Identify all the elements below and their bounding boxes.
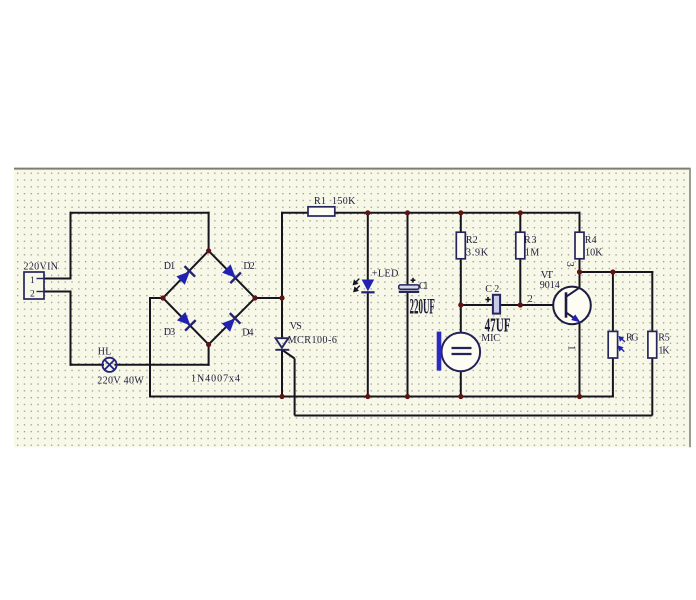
svg-text:47UF: 47UF [485, 316, 511, 337]
wire collector rail [580, 271, 653, 273]
svg-text:MCR100-6: MCR100-6 [288, 335, 337, 346]
junction top rail R2 [458, 210, 463, 215]
wire R3 top drop [519, 213, 521, 232]
svg-text:1M: 1M [525, 248, 540, 259]
thyristor VS MCR100-6 [275, 338, 652, 415]
resistor RG photoresistor [608, 331, 625, 358]
sheet background [14, 168, 691, 447]
wire bridge edge top-left [163, 251, 209, 298]
junction bridge right [252, 295, 257, 300]
LED light arrows [354, 279, 360, 292]
svg-text:VT: VT [541, 269, 554, 281]
svg-text:HL: HL [98, 346, 112, 357]
junction top rail C1 [405, 210, 410, 215]
svg-text:D2: D2 [243, 261, 254, 272]
wire top-left rail [71, 212, 209, 214]
svg-text:D3: D3 [164, 327, 175, 338]
wire R1 left lead [282, 212, 308, 214]
lamp HL [102, 358, 116, 372]
junction collector RG [610, 269, 615, 274]
RG light arrows [619, 337, 625, 352]
wire RG bottom [612, 358, 614, 397]
svg-text:2: 2 [30, 290, 35, 300]
wire bridge edge bottom-right [209, 298, 255, 345]
svg-text:R3: R3 [524, 235, 537, 246]
pin 1 stub inside [37, 278, 45, 280]
wire SCR anode [281, 298, 283, 338]
wire LED bottom drop [367, 293, 369, 397]
wire R5 top drop [651, 272, 653, 331]
wire lamp left [71, 364, 104, 366]
microphone MIC [437, 332, 480, 372]
wire bridge edge top-right [209, 251, 255, 298]
svg-text:+LED: +LED [372, 269, 399, 280]
sheet right border [689, 168, 691, 447]
capacitor C2 [485, 295, 500, 314]
junction bottom SCR [279, 394, 284, 399]
wire drop to bridge top [208, 213, 210, 251]
gate lead diagonal [283, 351, 294, 359]
junction main node [279, 295, 284, 300]
svg-text:10K: 10K [585, 248, 603, 259]
svg-text:VS: VS [290, 321, 302, 332]
diode D1 [176, 266, 195, 285]
wire pin1 riser [70, 213, 72, 279]
wire left vertex drop [149, 298, 151, 397]
LED [354, 279, 375, 293]
diode D4 [222, 313, 241, 332]
wire R4 to collector node [579, 259, 581, 288]
transistor VT 9014 [553, 287, 591, 325]
sheet top border [14, 168, 691, 170]
svg-text:2: 2 [528, 294, 533, 305]
junction bottom C1 [405, 394, 410, 399]
svg-text:3: 3 [564, 262, 575, 267]
resistor R5 [648, 331, 657, 358]
wire C1 top drop [407, 213, 409, 285]
svg-text:D4: D4 [242, 327, 253, 338]
R5 bottom riser [651, 358, 653, 416]
svg-text:220UF: 220UF [410, 293, 435, 318]
wire left vertex stub [150, 297, 163, 299]
wire SCR cathode [281, 351, 283, 397]
svg-text:R5: R5 [658, 333, 670, 344]
junction top rail LED [365, 210, 370, 215]
svg-text:3.9K: 3.9K [466, 248, 489, 259]
svg-text:R4: R4 [585, 235, 597, 246]
junction bottom emitter [577, 394, 582, 399]
wire C2 to base [500, 304, 565, 306]
wire MIC bottom [460, 371, 462, 396]
wire bridge edge bottom-left [163, 298, 209, 345]
svg-text:9014: 9014 [540, 280, 560, 291]
junction bottom LED [365, 394, 370, 399]
wire R2 to MIC [460, 259, 462, 333]
C2 plus sign [485, 297, 490, 302]
pin 2 stub inside [37, 291, 45, 293]
svg-text:1: 1 [30, 276, 35, 286]
wire pin2 drop [70, 292, 72, 365]
emitter lead [566, 312, 574, 318]
wire emitter drop [579, 322, 581, 397]
wire pin1 stub [44, 278, 71, 280]
wire R3 bottom drop [519, 259, 521, 305]
diode D2 [222, 264, 241, 283]
junction bridge bottom [206, 342, 211, 347]
base lead [565, 304, 566, 306]
wire LED top drop [367, 213, 369, 280]
emitter arrow [571, 314, 580, 322]
gate rail [295, 415, 653, 417]
svg-text:C1: C1 [419, 281, 429, 292]
junction bottom MIC [458, 394, 463, 399]
wire top rail right [335, 212, 580, 214]
junction mid R3-base [518, 302, 523, 307]
svg-text:220VIN: 220VIN [24, 262, 59, 273]
wire C1 bottom drop [407, 293, 409, 397]
resistor R4 [575, 232, 584, 259]
C1 plus sign [411, 278, 416, 283]
gate lead drop [294, 359, 296, 416]
junction collector node [577, 269, 582, 274]
connector J1 220VIN box [24, 272, 44, 299]
resistor R1 [308, 207, 335, 216]
svg-text:D1: D1 [164, 261, 175, 272]
capacitor C1 [399, 278, 420, 292]
wire right vertex stub [255, 297, 282, 299]
collector lead [566, 287, 580, 296]
svg-text:1N4007x4: 1N4007x4 [191, 374, 240, 385]
base bar [565, 292, 568, 317]
svg-text:R2: R2 [466, 235, 478, 246]
junction top rail R3 [518, 210, 523, 215]
wire pin2 stub [44, 291, 71, 293]
svg-text:RG: RG [626, 333, 639, 344]
wire mid C2 left [461, 304, 493, 306]
wire lamp right [115, 364, 208, 366]
wire RG top drop [612, 272, 614, 331]
resistor R2 [456, 232, 465, 259]
junction bridge top [206, 248, 211, 253]
svg-text:1K: 1K [658, 345, 670, 356]
wire bottom rail [150, 396, 613, 398]
junction bridge left [160, 295, 165, 300]
wire bridge bottom riser [208, 345, 210, 365]
svg-text:220V 40W: 220V 40W [97, 375, 144, 386]
diode D3 [177, 312, 196, 331]
wire R2 top drop [460, 213, 462, 232]
wire R4 top drop [579, 213, 581, 232]
resistor R3 [516, 232, 525, 259]
svg-text:R1 150K: R1 150K [314, 196, 356, 207]
svg-text:1: 1 [566, 345, 577, 350]
junction mid R2-C2 [458, 302, 463, 307]
wire main riser [281, 213, 283, 298]
